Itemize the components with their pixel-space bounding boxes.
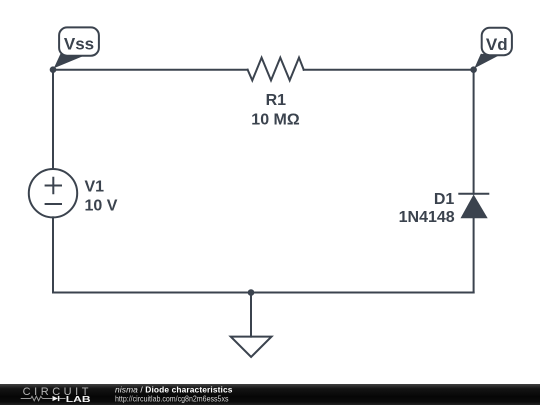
ground triangle symbol (231, 337, 272, 357)
ground node junction dot (248, 289, 255, 296)
svg-text:nisma / Diode characteristics: nisma / Diode characteristics (115, 385, 233, 395)
wire left vertical (Vss node to V1 top) (52, 70, 54, 169)
svg-text:10 MΩ: 10 MΩ (251, 111, 300, 128)
node label Vd box (482, 28, 512, 55)
footer bar (0, 384, 540, 405)
diode D1 triangle (anode) (461, 195, 488, 219)
node label Vss pointer tail (54, 54, 84, 69)
ground stem wire (250, 293, 252, 337)
logo diode triangle (53, 396, 59, 401)
logo squiggle wire right (59, 398, 65, 400)
logo squiggle wire middle (43, 398, 53, 400)
svg-text:1N4148: 1N4148 (399, 209, 455, 226)
svg-text:Vd: Vd (486, 35, 508, 54)
resistor R1 zigzag (248, 58, 304, 81)
svg-text:V1: V1 (85, 178, 105, 195)
svg-text:D1: D1 (434, 191, 455, 208)
node label Vd pointer tail (474, 54, 499, 69)
wire right vertical (Vd node to diode D1) (473, 70, 475, 194)
node Vd junction dot (470, 66, 477, 73)
node Vss junction dot (50, 66, 57, 73)
svg-text:Vss: Vss (64, 35, 94, 54)
wire right-bottom vertical (diode D1 to bottom rail) (473, 218, 475, 292)
wire bottom rail horizontal (53, 292, 474, 294)
svg-text:10 V: 10 V (85, 198, 118, 215)
logo squiggle resistor (31, 396, 43, 400)
logo squiggle wire left (21, 398, 31, 400)
node label Vss box (59, 27, 99, 55)
svg-text:R1: R1 (266, 92, 287, 109)
voltage source V1 circle (29, 169, 77, 217)
wire top-right horizontal (resistor R1 to Vd node) (304, 69, 474, 71)
wire left-bottom vertical (V1 bottom to bottom rail) (52, 217, 54, 292)
svg-text:http://circuitlab.com/cg8n2m6e: http://circuitlab.com/cg8n2m6ess5xs (115, 395, 229, 404)
V1 plus sign (46, 178, 61, 193)
V1 minus sign (46, 203, 61, 205)
logo diode bar (58, 396, 60, 401)
diode D1 cathode bar (459, 193, 488, 195)
svg-text:LAB: LAB (66, 394, 91, 404)
wire top-left horizontal (Vss node to resistor R1) (53, 69, 248, 71)
